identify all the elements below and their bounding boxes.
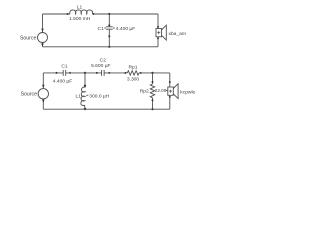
node C1 bottom junction bbox=[108, 46, 110, 48]
Rp2 value dash to speaker bbox=[166, 89, 168, 91]
svg-text:Rp2: Rp2 bbox=[140, 88, 149, 94]
inductor L1 (1.500 mH) bbox=[70, 10, 93, 14]
node speaker bottom terminal bbox=[157, 37, 159, 39]
svg-text:C1: C1 bbox=[61, 63, 68, 69]
svg-text:xba_am: xba_am bbox=[169, 31, 186, 37]
top rail left segment bbox=[43, 13, 71, 15]
arrow below source bbox=[41, 43, 44, 46]
node Rp2 bottom terminal bbox=[152, 99, 154, 101]
wire source top to top rail bbox=[42, 14, 44, 33]
node speaker bottom terminal bbox=[169, 96, 171, 98]
svg-text:5.600 µF: 5.600 µF bbox=[91, 63, 110, 69]
svg-text:300.0 µH: 300.0 µH bbox=[89, 93, 109, 99]
wire top rail to speaker bbox=[157, 14, 159, 29]
speaker cone bbox=[162, 25, 167, 40]
node Rp2 top junction bbox=[151, 72, 153, 74]
rail C2 to Rp1 bbox=[104, 72, 127, 74]
node Rp1 left terminal bbox=[124, 72, 126, 74]
wire top rail to speaker (bottom) bbox=[169, 73, 171, 87]
L1 value dash bbox=[86, 94, 88, 96]
arrow below source bbox=[42, 100, 45, 103]
bottom rail (top circuit) bbox=[43, 46, 159, 48]
node L1 top junction bbox=[84, 72, 86, 74]
resistor Rp1 (3.300) zigzag bbox=[127, 71, 139, 75]
node speaker top terminal bbox=[157, 26, 159, 28]
rail C1 to C2 bbox=[66, 72, 102, 74]
capacitor C2 (5.600 uF) horizontal bbox=[101, 70, 103, 76]
bottom rail (bottom circuit) bbox=[43, 108, 170, 110]
node C2 right terminal bbox=[108, 72, 110, 74]
node speaker top terminal bbox=[169, 81, 171, 83]
svg-text:Rp1: Rp1 bbox=[129, 64, 138, 70]
node L1 left terminal bbox=[67, 13, 69, 15]
capacitor C1 (4.400 uF) vertical bbox=[108, 14, 110, 27]
speaker kcpwle box bbox=[168, 87, 174, 95]
svg-text:22.00: 22.00 bbox=[155, 88, 167, 93]
svg-text:4.400 µF: 4.400 µF bbox=[116, 26, 135, 32]
C1 value dash bbox=[113, 27, 115, 29]
source V2 (bottom) bbox=[38, 89, 48, 99]
svg-text:Source: Source bbox=[20, 35, 37, 41]
node C1 top terminal bbox=[108, 24, 110, 26]
node C1 left terminal bbox=[56, 72, 58, 74]
speaker plus bbox=[169, 90, 172, 93]
svg-text:Source: Source bbox=[21, 92, 38, 98]
top rail right segment bbox=[92, 13, 158, 15]
wire source bottom to bottom rail bbox=[42, 99, 44, 109]
svg-text:L1: L1 bbox=[76, 93, 82, 99]
node Rp2 bottom junction bbox=[151, 108, 153, 110]
svg-text:C1: C1 bbox=[98, 26, 105, 32]
node L1 bottom junction bbox=[84, 108, 86, 110]
svg-text:3.300: 3.300 bbox=[127, 77, 140, 83]
node C1 lower terminal bbox=[108, 35, 110, 37]
resistor Rp2 (22.00) vertical bbox=[152, 73, 154, 84]
wire speaker to bottom rail bbox=[157, 37, 159, 47]
capacitor C1 (4.400 uF) horizontal bbox=[62, 70, 64, 76]
svg-text:C2: C2 bbox=[100, 58, 107, 64]
speaker cone bbox=[173, 84, 178, 99]
svg-text:kcpwle: kcpwle bbox=[180, 90, 195, 96]
wire source top to top rail bbox=[42, 73, 44, 89]
wire source bottom to bottom rail bbox=[42, 43, 44, 47]
svg-text:4.400 µF: 4.400 µF bbox=[53, 78, 72, 84]
node Rp1 right terminal bbox=[140, 72, 142, 74]
C1 label dash bbox=[104, 27, 106, 29]
arrow into source top bbox=[41, 29, 44, 32]
node L1 top terminal bbox=[84, 85, 86, 87]
inductor L1 (300.0 uH) vertical bbox=[84, 73, 86, 87]
svg-text:1.500 mH: 1.500 mH bbox=[69, 16, 91, 22]
node L1 right terminal bbox=[93, 13, 95, 15]
speaker xba_am box bbox=[156, 29, 162, 37]
wire speaker to bottom rail bbox=[169, 95, 171, 109]
node C1 right terminal bbox=[69, 72, 71, 74]
source V1 (top) bbox=[38, 33, 48, 43]
speaker plus bbox=[157, 31, 160, 34]
rail Rp1 to speaker bbox=[139, 72, 170, 74]
arrow into source top bbox=[42, 85, 45, 88]
node C2 left terminal bbox=[96, 72, 98, 74]
node C1 top junction bbox=[108, 13, 110, 15]
node Rp2 top terminal bbox=[152, 81, 154, 83]
top rail (bottom circuit) segment to C1 bbox=[43, 72, 63, 74]
svg-text:L1: L1 bbox=[77, 5, 83, 11]
